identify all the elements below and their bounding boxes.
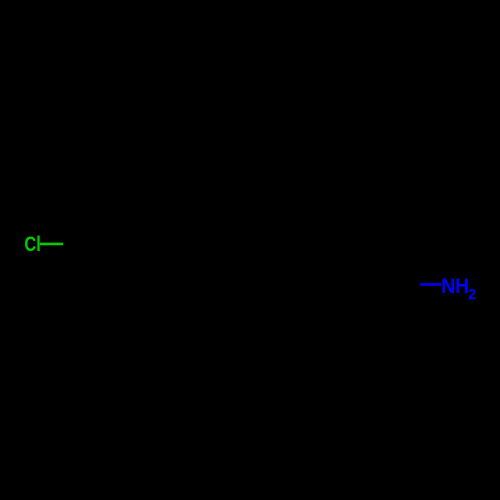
svg-text:Cl: Cl [24, 232, 40, 256]
svg-text:2: 2 [468, 287, 476, 303]
svg-text:NH: NH [441, 275, 469, 298]
